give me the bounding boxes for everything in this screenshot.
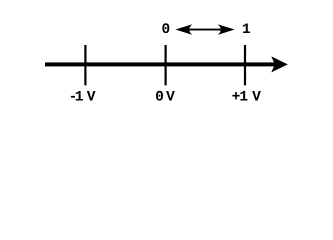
node A: tick mark at -1 V [84, 45, 86, 85]
wire: horizontal voltage axis line [45, 62, 277, 66]
node C value label "+1 V" [232, 91, 260, 101]
node B value label "0 V" [156, 91, 175, 101]
node 0: logic value label "0" above axis [162, 23, 169, 33]
node C: tick mark at +1 V [244, 45, 246, 85]
node 1: logic value label "1" above axis [243, 23, 250, 33]
wire: double-headed range arrow between logic 0 and logic 1 [175, 24, 234, 35]
node A value label "-1 V" [71, 91, 96, 101]
wire: axis arrowhead (right end) [271, 56, 288, 72]
node B: tick mark at 0 V [165, 45, 167, 85]
